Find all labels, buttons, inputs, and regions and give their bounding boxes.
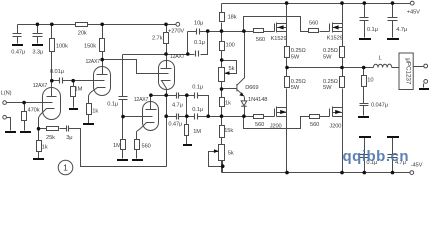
svg-text:0.1μ: 0.1μ	[194, 40, 205, 46]
node 2.7k rail	[164, 23, 168, 27]
label 12AX7 V1a	[33, 83, 48, 89]
capacitor 0.1u upper	[195, 93, 198, 99]
label 2.7k	[152, 36, 163, 42]
capacitor 0.1u lower	[195, 114, 198, 120]
resistor 560 K1 gate	[254, 29, 264, 33]
svg-text:J200: J200	[329, 124, 341, 130]
label 560 K2	[309, 20, 318, 26]
wire J2 drain to -45 rail	[342, 117, 344, 173]
wire D669 collector	[244, 32, 246, 79]
node V3 plate	[164, 52, 168, 56]
wire K2 drain to rail	[342, 4, 344, 24]
wire -45V bottom rail	[222, 172, 410, 174]
wire 0.25R1 to output	[286, 58, 288, 68]
resistor 100k	[50, 39, 55, 52]
wire zobel 10R leads	[363, 68, 365, 116]
wire 0.1u bottom-right leads	[364, 138, 366, 173]
label 15k	[224, 128, 233, 134]
ground 0.1u top right	[359, 38, 371, 40]
wire srpp out line upper	[151, 96, 209, 117]
wire cathode to 25k	[39, 128, 47, 130]
wire 3u to feedback corner	[69, 129, 167, 167]
resistor 100	[220, 42, 225, 51]
tube V1a 12AX7 input triode	[39, 88, 61, 120]
ground 3.3u	[32, 44, 43, 46]
node 0.1u rail	[363, 1, 367, 5]
wire pot2 wiper loop	[209, 152, 223, 167]
wire speaker out to terminal	[414, 66, 424, 68]
svg-text:1M: 1M	[193, 129, 201, 135]
svg-text:150k: 150k	[84, 44, 96, 50]
mosfet Q5 2SJ200 #2	[330, 107, 343, 117]
label 1M grid leak	[75, 87, 83, 93]
wire input shield to ground	[7, 118, 11, 131]
svg-text:0.25Ω: 0.25Ω	[323, 79, 338, 85]
resistor 0.25ohm #3	[285, 77, 290, 88]
resistor 18k	[220, 13, 225, 22]
node 1M mid lower	[185, 114, 189, 118]
ground 560 V4	[132, 159, 143, 161]
svg-text:0.1μ: 0.1μ	[367, 27, 378, 33]
node lower drive 15k	[220, 114, 224, 118]
svg-text:12AX7: 12AX7	[33, 83, 48, 89]
svg-text:qqibb.cn: qqibb.cn	[343, 148, 410, 165]
node V4 grid	[121, 115, 125, 119]
node 0.1u -45	[363, 171, 367, 175]
wire 4.7u top-right leads	[392, 4, 394, 38]
diode D1 1N4148	[241, 101, 247, 106]
label J200 #2	[329, 124, 341, 130]
resistor 1M V4 grid	[121, 140, 126, 150]
resistor 1k bias	[220, 98, 225, 107]
label 0.1u +45	[367, 27, 378, 33]
label 0.1u -45	[366, 160, 377, 166]
label 0.1u top	[194, 40, 205, 46]
svg-text:560: 560	[310, 122, 319, 128]
wire 100k to tube V1 plate	[51, 25, 53, 88]
capacitor 4.7u -45 bypass	[388, 155, 398, 158]
wire 3.3u cap leads	[37, 25, 39, 44]
svg-text:L(N): L(N)	[1, 90, 12, 96]
resistor 25k feedback	[47, 127, 59, 131]
wire 0.47u cap leads	[17, 25, 19, 44]
resistor 2.7k	[164, 33, 169, 44]
svg-text:100k: 100k	[56, 44, 68, 50]
mosfet Q4 2SJ200 #1	[275, 107, 287, 117]
resistor 10 zobel	[362, 76, 367, 87]
node 150k rail	[100, 23, 104, 27]
label 0.47u	[11, 49, 25, 55]
label 0.1u V4 grid	[107, 101, 118, 107]
capacitor 10u	[197, 29, 200, 35]
svg-text:5W: 5W	[291, 85, 300, 91]
wire bias chain column	[221, 4, 223, 173]
svg-text:20k: 20k	[78, 30, 87, 36]
label K1529 #2	[327, 35, 343, 41]
wire output after inductor	[392, 67, 399, 69]
svg-text:12AX7: 12AX7	[134, 97, 149, 103]
node D669 base	[220, 87, 224, 91]
tube V2b 12AX7 srpp lower	[137, 96, 159, 132]
svg-text:1M: 1M	[75, 87, 83, 93]
svg-text:560: 560	[256, 37, 265, 43]
label 0.25 #4a	[323, 79, 338, 85]
ground speaker return	[419, 88, 429, 90]
node 1M mid upper	[185, 93, 189, 97]
tube V2a 12AX7 driver	[159, 61, 175, 90]
svg-text:0.47μ: 0.47μ	[168, 121, 182, 127]
wire D669 emitter to diode	[244, 97, 246, 117]
wire V2 cathode to 1k	[88, 96, 90, 124]
terminal +45V	[410, 1, 414, 5]
label 25k	[46, 135, 55, 141]
resistor 560 J2 gate	[310, 115, 320, 119]
label 10 zobel	[367, 77, 373, 83]
svg-text:5k: 5k	[228, 150, 234, 156]
svg-text:12AX7: 12AX7	[170, 54, 185, 60]
wire V2 plate to V3 grid step	[103, 60, 169, 74]
resistor 0.25ohm #2	[340, 47, 345, 58]
svg-text:0.1μ: 0.1μ	[192, 107, 203, 113]
ground 1M V4	[117, 159, 128, 161]
svg-text:560: 560	[255, 122, 264, 128]
wire D669 base	[222, 88, 237, 90]
resistor 0.25ohm #1	[285, 47, 290, 58]
label 100	[226, 42, 235, 48]
wire grid V4	[123, 116, 153, 118]
label 560 K1	[256, 37, 265, 43]
resistor 20k	[76, 23, 88, 27]
svg-text:-45V: -45V	[411, 163, 423, 169]
svg-text:470k: 470k	[28, 107, 40, 113]
label 4.7u +45	[396, 27, 407, 33]
terminal -45V	[410, 171, 414, 175]
wire lower gate bridge	[244, 117, 310, 129]
svg-text:1M: 1M	[113, 143, 121, 149]
node 3.3u rail	[36, 23, 40, 27]
wire K1 drain to rail	[286, 4, 288, 24]
node V1 plate	[50, 79, 54, 83]
wire 470k leads	[24, 103, 26, 131]
label 18k	[228, 14, 237, 20]
label 560 J1	[255, 122, 264, 128]
node 10u left	[186, 52, 190, 56]
svg-text:+270V: +270V	[168, 29, 184, 35]
svg-text:25k: 25k	[46, 135, 55, 141]
IC U1 uPC1237 speaker protector	[399, 53, 413, 90]
wire +45V top rail	[222, 3, 411, 5]
node cathode line lower	[164, 114, 168, 118]
svg-text:3.3μ: 3.3μ	[32, 49, 43, 55]
svg-text:0.25Ω: 0.25Ω	[323, 48, 338, 54]
wire J1 drain to -45 rail	[286, 117, 288, 173]
node pot2 bottom	[221, 164, 225, 168]
wire 1M mid leads	[186, 96, 188, 145]
ground 1M mid	[183, 144, 192, 146]
node V1 cathode	[37, 127, 41, 131]
label 12AX7 V2a	[170, 54, 185, 60]
svg-text:2.7k: 2.7k	[152, 36, 163, 42]
ground 1M grid leak	[69, 108, 78, 110]
label 0.25 #1b	[291, 54, 300, 60]
node J2 rail	[340, 171, 344, 175]
inductor L	[373, 64, 391, 67]
label 0.25 #4b	[323, 85, 332, 91]
node zobel	[362, 66, 366, 70]
label 470k	[28, 107, 40, 113]
node output 1	[285, 66, 289, 70]
node lower line right	[206, 114, 210, 118]
svg-text:0.25Ω: 0.25Ω	[291, 48, 306, 54]
ground input shield	[5, 131, 16, 133]
wire output line	[287, 67, 374, 69]
label -45V	[411, 163, 423, 169]
node 18k bottom	[220, 29, 224, 33]
svg-text:K1529: K1529	[327, 35, 343, 41]
pot1 wiper arrow	[225, 71, 230, 75]
label 0.25 #2b	[323, 54, 332, 60]
terminal input shield	[3, 115, 7, 119]
node V2 plate	[100, 58, 104, 62]
wire upper gate bridge	[244, 17, 309, 32]
label +270V	[168, 29, 184, 35]
potentiometer 5k upper	[219, 68, 225, 82]
wire K2 gate lead	[320, 31, 330, 33]
wire V3 cathode line	[166, 89, 168, 167]
capacitor 0.1u V4 grid	[119, 97, 128, 100]
wire input L to grid	[7, 102, 53, 104]
wire 0.1u grid cap column	[122, 55, 124, 159]
watermark qqibb.cn	[343, 148, 410, 165]
wire +270V rail left	[18, 24, 76, 26]
node pot1 top	[220, 58, 224, 62]
ground 470k	[20, 131, 31, 133]
svg-text:1k: 1k	[225, 100, 231, 106]
resistor 0.25ohm #4	[340, 77, 345, 88]
node K gate drive	[242, 29, 246, 33]
terminal speaker +	[424, 64, 428, 68]
label 0.25 #1a	[291, 48, 306, 54]
wire 10u left lead	[188, 32, 197, 55]
capacitor 0.1u +45 bypass	[360, 18, 369, 21]
wire V1 cathode down	[38, 118, 40, 159]
node 4.7u rail	[391, 1, 395, 5]
capacitor 4.7u +45 bypass	[388, 18, 398, 21]
resistor 150k	[100, 39, 105, 52]
wire 1M grid leak leads	[73, 81, 75, 108]
resistor 1M grid leak	[71, 87, 76, 97]
terminal +270V	[176, 22, 180, 26]
wire 4.7u bottom-right leads	[392, 138, 394, 173]
node J gate drive	[242, 114, 246, 118]
label 1N4148	[248, 97, 267, 103]
label 10u	[194, 21, 203, 27]
node marker circled 1	[58, 160, 73, 175]
capacitor 4.7u upper	[177, 93, 179, 99]
wire J2 gate lead	[320, 116, 330, 118]
resistor 1k V2 cathode	[87, 104, 92, 115]
wire 0.25R3 leads	[286, 68, 288, 108]
svg-text:560: 560	[142, 144, 151, 150]
label 1k V1	[42, 144, 48, 150]
label L inductor	[379, 56, 382, 62]
resistor 15k	[220, 126, 225, 138]
svg-text:J200: J200	[270, 124, 282, 130]
wire 0.25R2 to output	[342, 58, 344, 68]
resistor 1M mid	[185, 125, 189, 136]
wire K1 source to 0.25R	[286, 32, 288, 47]
resistor 560 J1 gate	[254, 115, 264, 119]
node J1 rail	[285, 171, 289, 175]
label 150k	[84, 44, 96, 50]
svg-text:5W: 5W	[323, 85, 332, 91]
svg-text:L: L	[379, 56, 382, 62]
svg-text:1k: 1k	[92, 108, 98, 114]
capacitor 0.047u zobel	[360, 104, 369, 106]
wire 0.1u top-right leads	[364, 4, 366, 38]
label 560 J2	[310, 122, 319, 128]
svg-text:10: 10	[367, 77, 373, 83]
pot2 wiper arrow	[214, 149, 219, 153]
svg-text:560: 560	[309, 20, 318, 26]
ground 0.1u bottom right	[359, 136, 371, 138]
label 1k bias	[225, 100, 231, 106]
capacitor 0.1u -45 bypass	[360, 155, 369, 158]
svg-text:12AX7: 12AX7	[86, 59, 101, 65]
resistor 560 V4 cathode	[135, 140, 140, 150]
wire pot2 bottom lead	[222, 161, 224, 173]
node 10u right	[206, 29, 210, 33]
capacitor 3u feedback	[67, 126, 69, 132]
label 0.25 #3a	[291, 79, 306, 85]
label 560 V4	[142, 144, 151, 150]
terminal input L	[3, 101, 7, 105]
svg-text:4.7μ: 4.7μ	[396, 27, 407, 33]
svg-text:5W: 5W	[323, 54, 332, 60]
label K1529 #1	[271, 36, 287, 42]
node V4 plate	[149, 93, 153, 97]
label 1M mid	[193, 129, 201, 135]
label 0.47u lower	[168, 121, 182, 127]
label 0.25 #3b	[291, 85, 300, 91]
label 4.7u -45	[395, 160, 406, 166]
wire K1 gate lead	[244, 31, 275, 33]
wire J1 gate lead	[264, 116, 275, 118]
wire pot1 wiper loop	[222, 61, 237, 74]
mosfet Q2 2SK1529 #1	[275, 23, 287, 33]
wire V4 cathode to 560	[136, 132, 138, 159]
capacitor 0.47u lower	[177, 114, 179, 120]
label 0.1u lower	[192, 107, 203, 113]
ground 4.7u top right	[387, 38, 399, 40]
svg-text:0.01μ: 0.01μ	[50, 69, 64, 75]
wire plate line V3	[123, 32, 208, 55]
label 4.7u upper	[172, 103, 183, 109]
wire lower coupling line	[167, 116, 254, 118]
label 3.3u	[32, 49, 43, 55]
ground zobel	[358, 116, 369, 118]
svg-text:5k: 5k	[229, 66, 235, 72]
label L(N) input	[1, 90, 12, 96]
label 12AX7 V1b	[86, 59, 101, 65]
ground 0.47u	[12, 44, 23, 46]
svg-text:100: 100	[226, 42, 235, 48]
wire 10u right lead to gate node	[200, 31, 275, 33]
node V2 grid	[71, 79, 75, 83]
svg-text:18k: 18k	[228, 14, 237, 20]
svg-text:4.7μ: 4.7μ	[172, 103, 183, 109]
wire K2 source to 0.25R	[342, 32, 344, 47]
ground 1k V2	[83, 123, 94, 125]
label 0.01u	[50, 69, 64, 75]
svg-text:D669: D669	[245, 85, 258, 91]
svg-text:0.047μ: 0.047μ	[371, 102, 388, 108]
wire 25k to 3u	[60, 128, 67, 130]
label 5k lower	[228, 150, 234, 156]
svg-text:1: 1	[63, 163, 68, 173]
svg-text:10μ: 10μ	[194, 21, 203, 27]
label +45V	[407, 10, 420, 16]
label J200 #1	[270, 124, 282, 130]
wire speaker return to ground	[423, 84, 425, 88]
svg-text:3μ: 3μ	[66, 135, 72, 141]
wire V2 plate	[102, 60, 104, 69]
terminal speaker -	[424, 80, 428, 84]
node K1 drain rail	[285, 1, 289, 5]
wire 0.01u node	[52, 80, 105, 82]
resistor 470k	[22, 112, 27, 121]
resistor 560 K2 gate	[309, 29, 319, 33]
node 4.7u -45	[391, 171, 395, 175]
node V3 cathode	[164, 93, 168, 97]
svg-text:μPC1237: μPC1237	[404, 58, 411, 85]
wire 150k leads	[102, 25, 104, 60]
svg-text:+45V: +45V	[407, 10, 420, 16]
svg-text:0.47μ: 0.47μ	[11, 49, 25, 55]
capacitor 0.01u coupling	[60, 78, 63, 84]
capacitor 0.1u plate line	[196, 51, 199, 57]
label 5k upper	[229, 66, 235, 72]
wire 0.25R4 leads	[342, 68, 344, 108]
node output 2	[340, 66, 344, 70]
ground 1k V1	[33, 158, 44, 160]
tube V1b 12AX7 second stage	[89, 67, 111, 96]
label 0.047u	[371, 102, 388, 108]
capacitor 3.3u mains	[33, 34, 43, 37]
label 12AX7 V2b	[134, 97, 149, 103]
svg-text:15k: 15k	[224, 128, 233, 134]
label 0.1u upper	[192, 85, 203, 91]
svg-text:5W: 5W	[291, 54, 300, 60]
label D669	[245, 85, 258, 91]
svg-text:1N4148: 1N4148	[248, 97, 267, 103]
svg-text:0.1μ: 0.1μ	[107, 101, 118, 107]
label 0.25 #2a	[323, 48, 338, 54]
node input grid	[22, 101, 26, 105]
wire +270V rail right	[87, 24, 176, 26]
ground 4.7u bottom right	[387, 136, 399, 138]
resistor 1k V1 cathode	[37, 141, 42, 152]
label 20k	[78, 30, 87, 36]
label 1M V4	[113, 143, 121, 149]
label 3u	[66, 135, 72, 141]
label 1k V2	[92, 108, 98, 114]
svg-text:0.25Ω: 0.25Ω	[291, 79, 306, 85]
node K2 drain rail	[340, 1, 344, 5]
capacitor 0.47u mains	[13, 34, 22, 37]
potentiometer 5k lower	[219, 145, 225, 161]
svg-text:0.1μ: 0.1μ	[192, 85, 203, 91]
